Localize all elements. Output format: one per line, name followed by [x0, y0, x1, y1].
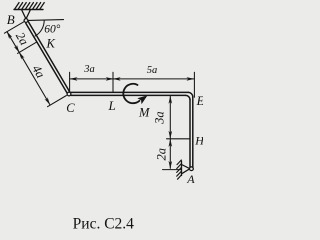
tick at A level [163, 169, 182, 171]
dimension 5a (top) [113, 78, 194, 80]
extension line at B [4, 22, 23, 33]
svg-text:M: M [138, 106, 150, 120]
pin A [190, 167, 194, 171]
beam EA vertical (double line) [190, 97, 193, 168]
svg-text:Рис. С2.4: Рис. С2.4 [73, 216, 135, 233]
extension line above E [193, 72, 195, 97]
pin B [24, 19, 28, 23]
ceiling line [14, 9, 43, 11]
svg-text:60°: 60° [44, 23, 61, 35]
tick at H [167, 138, 191, 140]
svg-text:H: H [194, 133, 203, 147]
svg-text:B: B [7, 12, 15, 27]
svg-text:C: C [66, 101, 75, 115]
wall line at A [181, 161, 183, 176]
dimension 2a (right vertical) [169, 139, 171, 168]
dimension 3a (top) [70, 78, 113, 80]
ceiling hatching at B [15, 3, 45, 10]
dimension 3a (right vertical) [169, 96, 171, 138]
support bracket at A [182, 165, 190, 174]
svg-text:L: L [108, 98, 116, 113]
beam BC (double line) [26, 22, 70, 95]
angle reference line at B [29, 19, 64, 22]
extension tick at K [18, 42, 37, 53]
hinge C [67, 92, 71, 96]
svg-text:2a: 2a [13, 30, 31, 48]
60 degree arc [35, 20, 44, 36]
svg-text:2a: 2a [155, 148, 169, 161]
dimension 4a along BC [19, 52, 50, 104]
wall hatching at A [177, 160, 182, 179]
svg-text:A: A [186, 172, 195, 186]
dimension 2a along BC [7, 32, 19, 53]
svg-text:5a: 5a [147, 65, 158, 76]
svg-text:4a: 4a [29, 63, 47, 81]
svg-text:E: E [196, 94, 203, 108]
corner E (rounded) [186, 92, 193, 99]
beam CE horizontal (double line) [71, 92, 189, 95]
support bracket at B [22, 10, 31, 20]
svg-text:K: K [46, 36, 56, 50]
svg-text:3a: 3a [83, 64, 95, 75]
extension line above C [69, 72, 71, 91]
moment arc M [123, 84, 139, 103]
extension line above L [112, 72, 114, 92]
svg-text:3a: 3a [153, 111, 167, 125]
extension line at C [48, 96, 67, 107]
moment arrowhead [137, 95, 147, 104]
